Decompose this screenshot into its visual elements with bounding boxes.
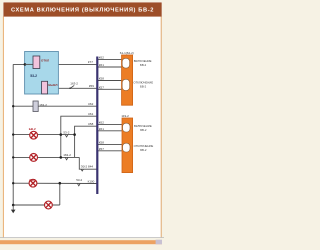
svg-text:БВ-2: БВ-2 xyxy=(29,127,36,131)
svg-text:ЭЗ-2 844: ЭЗ-2 844 xyxy=(81,165,94,169)
wire bus to box2 pin1b xyxy=(97,130,126,132)
node A row1 xyxy=(60,133,63,136)
right frame line xyxy=(160,17,162,238)
node at lamp2 row xyxy=(12,156,14,158)
wire lamp4 row xyxy=(13,204,60,206)
wire K58 riser xyxy=(75,126,97,134)
cable bus vertical xyxy=(96,57,98,195)
wire K61 riser xyxy=(61,116,97,134)
wire bus to box1 pin2a xyxy=(97,80,126,82)
switch 163-2 on vykl row xyxy=(70,85,74,88)
svg-text:К61: К61 xyxy=(99,127,104,131)
wire row otkl feed xyxy=(13,63,97,65)
svg-text:К62: К62 xyxy=(99,120,104,124)
wire drop to vykl contact xyxy=(25,64,42,88)
svg-text:К57: К57 xyxy=(99,147,104,151)
svg-text:53-2: 53-2 xyxy=(76,178,82,182)
bottom orange band xyxy=(0,240,162,244)
wire bus to box1 pin2b xyxy=(97,88,126,90)
node at lamp1 row xyxy=(12,133,14,135)
svg-text:163-2: 163-2 xyxy=(70,81,78,85)
wire inside box to contact1 xyxy=(25,63,33,65)
svg-text:АБР: АБР xyxy=(29,178,35,182)
title bar xyxy=(3,2,161,16)
svg-text:К62: К62 xyxy=(99,56,104,60)
svg-text:ОТКЛ: ОТКЛ xyxy=(41,58,49,62)
svg-text:К58: К58 xyxy=(99,77,104,81)
switch 53-2 on K100 row xyxy=(77,183,80,185)
svg-text:53-2: 53-2 xyxy=(30,74,37,78)
lamp 4 xyxy=(45,201,53,209)
svg-text:53-2: 53-2 xyxy=(63,130,69,134)
controller box 53-2 xyxy=(25,52,59,95)
svg-text:К100: К100 xyxy=(88,179,95,183)
svg-text:К58: К58 xyxy=(88,122,93,126)
node feed junction xyxy=(24,63,27,66)
apparatus box1 61-1(62-2) xyxy=(122,55,133,105)
wire bus to box1 pin1a xyxy=(97,59,126,61)
svg-text:ВЫКЛ: ВЫКЛ xyxy=(48,83,57,87)
wire link A row1-row2 xyxy=(60,135,62,158)
svg-text:К59: К59 xyxy=(89,84,94,88)
wire row4 riser xyxy=(59,183,61,205)
switch 53-2 on row1 xyxy=(65,135,68,137)
svg-text:БВ-2: БВ-2 xyxy=(140,128,147,132)
wire bus to box2 pin1a xyxy=(97,123,126,125)
connector on 844 wire xyxy=(81,169,83,171)
wire left vertical bus xyxy=(12,64,14,205)
svg-text:119-2: 119-2 xyxy=(121,114,129,118)
svg-text:К58: К58 xyxy=(99,140,104,144)
wire bus to box2 pin2b xyxy=(97,150,126,152)
lamp BV-2 xyxy=(29,127,38,139)
slide white area xyxy=(3,2,162,238)
svg-text:К61: К61 xyxy=(99,63,104,67)
svg-text:163-2: 163-2 xyxy=(63,153,71,157)
pin oval box2 pin2 xyxy=(123,143,130,152)
wire vykl row to bus xyxy=(48,87,97,89)
svg-text:К62: К62 xyxy=(88,102,93,106)
fuse 163-2 xyxy=(33,101,38,112)
switch 163-2 on row2 xyxy=(65,157,68,159)
lamp 2 xyxy=(30,154,38,162)
svg-text:К77: К77 xyxy=(88,60,93,64)
node at fuse row xyxy=(12,105,14,107)
svg-text:БВ-2: БВ-2 xyxy=(140,148,147,152)
svg-text:БВ-2: БВ-2 xyxy=(140,63,147,67)
wire lamp3 row K100 xyxy=(13,182,97,184)
pin oval box1 pin1 xyxy=(122,58,129,68)
wire link B row1-row2 xyxy=(74,135,76,158)
wire row2 drop to 844 xyxy=(79,157,97,169)
pin oval box2 pin1 xyxy=(123,123,130,132)
svg-text:К61: К61 xyxy=(88,112,93,116)
node row2 xyxy=(60,156,63,159)
left frame line xyxy=(2,17,4,238)
svg-text:БВ-2: БВ-2 xyxy=(140,84,147,88)
svg-text:163-2: 163-2 xyxy=(39,103,47,107)
wire bus to box1 pin1b xyxy=(97,66,126,68)
outer background xyxy=(0,0,164,250)
node row3 xyxy=(59,182,62,185)
svg-text:61-1(62-2): 61-1(62-2) xyxy=(120,51,134,55)
wire bus to box2 pin2a xyxy=(97,143,126,145)
pin oval box1 pin2 xyxy=(122,79,129,90)
lamp ABR xyxy=(29,178,37,187)
contact button VKL (upper, pink) xyxy=(33,56,40,69)
wire fuse row K62 xyxy=(13,105,97,107)
ground symbol xyxy=(12,204,15,207)
bottom gray line xyxy=(0,237,164,239)
node B row1 xyxy=(73,133,76,136)
node at lamp3 row xyxy=(12,182,14,184)
wire lamp2 row xyxy=(13,156,79,158)
apparatus box2 119-2 xyxy=(122,118,133,173)
contact button VYKL (lower, pink) xyxy=(42,81,48,94)
wire lamp1 row xyxy=(13,134,74,136)
svg-text:К57: К57 xyxy=(99,85,104,89)
svg-text:СХЕМА ВКЛЮЧЕНИЯ (ВЫКЛЮЧЕНИЯ) Б: СХЕМА ВКЛЮЧЕНИЯ (ВЫКЛЮЧЕНИЯ) БВ-2 xyxy=(11,8,154,14)
bottom band right tab xyxy=(156,240,162,245)
